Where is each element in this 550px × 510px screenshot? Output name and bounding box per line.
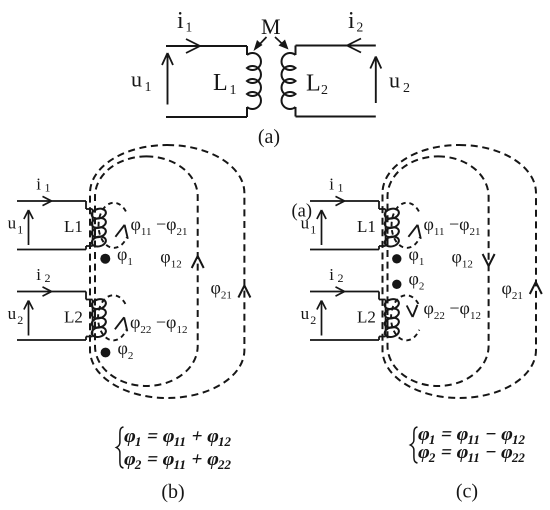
svg-text:1: 1	[45, 181, 51, 195]
svg-text:2: 2	[45, 271, 51, 285]
svg-text:1: 1	[230, 83, 237, 98]
svg-text:1: 1	[186, 20, 193, 35]
svg-text:2: 2	[403, 81, 410, 96]
svg-text:i: i	[36, 265, 41, 284]
svg-text:1: 1	[310, 222, 316, 236]
svg-text:2: 2	[338, 271, 344, 285]
svg-text:(a): (a)	[258, 126, 280, 148]
svg-text:2: 2	[310, 313, 316, 327]
svg-text:u: u	[8, 304, 17, 323]
svg-text:1: 1	[145, 80, 152, 95]
svg-text:i: i	[177, 8, 184, 34]
svg-text:2: 2	[357, 20, 364, 35]
svg-text:i: i	[329, 175, 334, 194]
svg-text:2: 2	[321, 83, 328, 98]
svg-text:2: 2	[17, 313, 23, 327]
svg-text:L: L	[306, 71, 321, 97]
svg-text:(b): (b)	[161, 481, 184, 503]
svg-text:L2: L2	[357, 308, 376, 327]
svg-text:M: M	[261, 14, 281, 39]
svg-text:i: i	[329, 265, 334, 284]
svg-text:i: i	[36, 175, 41, 194]
svg-text:u: u	[8, 213, 17, 232]
svg-text:L1: L1	[64, 217, 83, 236]
svg-text:(c): (c)	[456, 481, 478, 503]
svg-text:L1: L1	[357, 217, 376, 236]
svg-text:(a): (a)	[292, 202, 313, 222]
svg-text:1: 1	[17, 222, 23, 236]
svg-text:i: i	[348, 8, 355, 34]
svg-text:1: 1	[338, 181, 344, 195]
svg-text:u: u	[301, 304, 310, 323]
svg-text:u: u	[389, 68, 400, 93]
svg-text:u: u	[131, 67, 142, 92]
svg-text:L2: L2	[64, 308, 83, 327]
svg-text:L: L	[213, 70, 228, 96]
